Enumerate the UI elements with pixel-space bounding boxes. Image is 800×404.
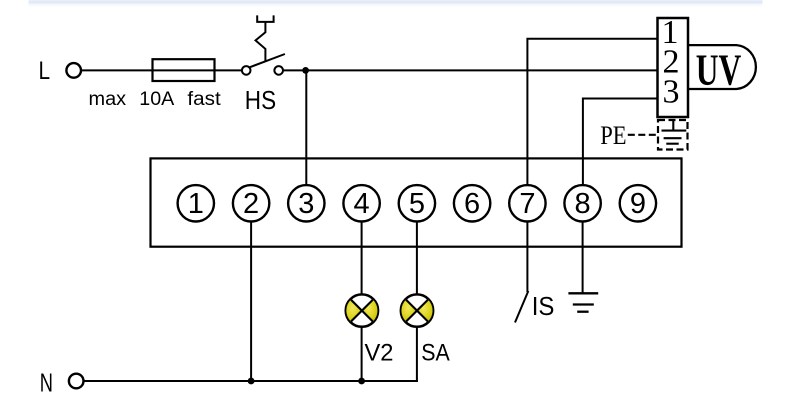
wire terminal 5 down to lamp SA xyxy=(416,222,418,296)
junction dot N/terminal2 xyxy=(248,378,255,385)
wire lamp V2 down to N xyxy=(361,326,363,381)
svg-text:2: 2 xyxy=(243,188,259,220)
svg-text:4: 4 xyxy=(354,188,370,220)
terminal 8 xyxy=(564,185,600,221)
wire terminal 8 down to ground xyxy=(582,222,584,294)
terminal 9 xyxy=(620,185,656,221)
junction dot on L line xyxy=(302,67,309,74)
svg-text:3: 3 xyxy=(298,188,314,220)
wire junction down to terminal 3 xyxy=(305,70,307,185)
wire lamp SA down to N corner xyxy=(416,326,418,382)
N wire xyxy=(84,380,418,382)
svg-text:fast: fast xyxy=(187,89,221,110)
svg-text:HS: HS xyxy=(245,85,276,115)
terminal 6 xyxy=(454,185,490,221)
lamp SA xyxy=(401,294,433,326)
PE dashed box xyxy=(658,120,688,150)
IS break stroke xyxy=(515,291,528,323)
top blue strip xyxy=(29,0,763,7)
svg-text:9: 9 xyxy=(630,188,646,220)
svg-text:V2: V2 xyxy=(365,339,394,366)
switch HS actuator linkage xyxy=(256,15,274,61)
svg-text:N: N xyxy=(40,367,53,397)
lamp V2 xyxy=(346,294,378,326)
switch HS contact left xyxy=(242,66,251,75)
svg-text:UV: UV xyxy=(696,46,742,95)
ground symbol xyxy=(568,293,598,311)
junction dot N/V2 xyxy=(358,378,365,385)
terminal N xyxy=(69,374,84,389)
terminal L xyxy=(66,63,81,78)
svg-text:3: 3 xyxy=(663,74,680,111)
UV lamp outline xyxy=(689,45,756,89)
wire L-to-switch xyxy=(81,69,242,71)
svg-text:SA: SA xyxy=(421,339,450,366)
terminal 1 xyxy=(178,185,214,221)
svg-text:PE: PE xyxy=(600,121,626,150)
svg-text:10A: 10A xyxy=(139,89,174,110)
wire terminal 4 down to lamp V2 xyxy=(361,222,363,296)
wire box3 to terminal 8 xyxy=(583,99,658,186)
PE dashed link xyxy=(628,134,658,136)
fuse F1 xyxy=(153,59,215,81)
svg-text:5: 5 xyxy=(409,188,425,220)
wire terminal 7 down to IS stub xyxy=(526,222,528,293)
wire switch-to-box2 xyxy=(283,69,658,71)
wire box1 to terminal 7 xyxy=(527,39,657,185)
UV controller box xyxy=(658,18,689,117)
terminal 2 xyxy=(233,185,269,221)
PE ground symbol xyxy=(662,119,687,144)
switch HS blade xyxy=(249,54,285,67)
svg-text:L: L xyxy=(39,57,51,85)
svg-text:max: max xyxy=(89,89,127,110)
wire terminal 2 down to N xyxy=(250,222,252,382)
svg-text:6: 6 xyxy=(464,188,480,220)
svg-text:8: 8 xyxy=(575,188,591,220)
terminal 3 xyxy=(288,185,324,221)
terminal 4 xyxy=(343,185,379,221)
terminal 7 xyxy=(509,185,545,221)
terminal block xyxy=(151,158,682,246)
svg-text:7: 7 xyxy=(519,188,535,220)
terminal 5 xyxy=(399,185,435,221)
switch HS contact right xyxy=(274,66,283,75)
svg-text:IS: IS xyxy=(532,291,555,321)
svg-text:1: 1 xyxy=(188,188,204,220)
